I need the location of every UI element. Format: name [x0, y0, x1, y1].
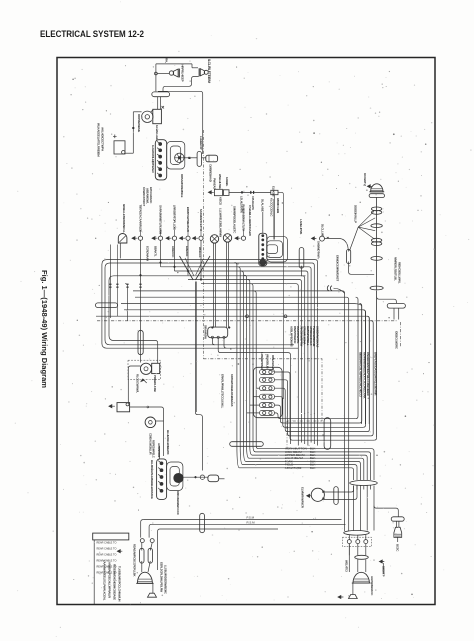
loop wires	[170, 146, 180, 165]
distributor	[142, 111, 153, 122]
diagram border frame	[57, 58, 435, 605]
wire	[324, 486, 357, 500]
wire	[141, 561, 143, 572]
svg-text:PWAEAS: PWAEAS	[213, 178, 217, 189]
wire	[157, 73, 169, 75]
svg-text:EPCCARACC: EPCCARACC	[149, 187, 153, 203]
svg-text:WILHSBLIB: WILHSBLIB	[266, 354, 270, 369]
wire row r10,r11,r12	[121, 304, 362, 425]
trunk wire	[376, 197, 378, 437]
wire	[119, 243, 121, 258]
terminal	[159, 174, 162, 177]
grommet	[350, 481, 378, 486]
wire	[218, 338, 290, 444]
dimmer relay	[208, 327, 228, 338]
svg-text:WELHTCI: WELHTCI	[344, 560, 348, 572]
wire	[273, 199, 275, 240]
junction	[147, 406, 149, 408]
wire	[275, 388, 368, 431]
wire	[152, 583, 154, 593]
svg-text:REAR CABLE TO: REAR CABLE TO	[97, 548, 117, 551]
svg-text:ECRDMAAH: ECRDMAAH	[146, 246, 150, 261]
connector	[140, 548, 144, 563]
svg-text:EERLDCRLDIWLPEILRW: EERLDCRLDIWLPEILRW	[159, 562, 163, 592]
wire	[156, 420, 164, 422]
svg-text:WLKAEEELMTELRREIBM: WLKAEEELMTELRREIBM	[97, 123, 101, 157]
terminal	[122, 151, 125, 154]
frame box	[93, 533, 129, 540]
fuse holder	[214, 189, 222, 195]
wire	[130, 407, 164, 456]
rear lamp	[394, 527, 402, 537]
wire	[157, 97, 159, 110]
terminal	[126, 403, 129, 406]
resistor	[208, 475, 219, 482]
arrow	[379, 560, 384, 563]
wire	[109, 245, 111, 319]
horn	[145, 417, 156, 428]
ticks	[109, 284, 111, 285]
svg-text:TBTAEEACAAWRLEE: TBTAEEACAAWRLEE	[138, 205, 142, 233]
connector	[324, 418, 331, 450]
long bus	[143, 520, 345, 529]
wire battery feed	[128, 366, 140, 403]
steering harness	[235, 263, 237, 446]
wire row	[201, 284, 298, 412]
starter motor	[140, 363, 151, 374]
wire	[353, 486, 355, 531]
wire	[156, 63, 192, 65]
wire	[256, 387, 259, 389]
loop wires	[170, 467, 179, 487]
starter dashed box	[128, 360, 161, 379]
terminal	[364, 540, 368, 544]
svg-text:REAR CABLE TO: REAR CABLE TO	[97, 560, 117, 563]
wire	[155, 64, 157, 91]
wire	[191, 64, 193, 68]
svg-text:LADELIPMS: LADELIPMS	[299, 219, 303, 234]
junction	[174, 266, 176, 268]
wire	[371, 321, 373, 436]
svg-text:BSERTP: BSERTP	[381, 566, 385, 577]
wire	[229, 191, 271, 193]
svg-text:ELMWRAWWCR: ELMWRAWWCR	[301, 487, 305, 509]
fuse holder	[223, 190, 229, 196]
column funnel	[180, 256, 211, 280]
front lamp	[137, 572, 152, 583]
panel lamp socket	[132, 237, 138, 240]
wire	[243, 230, 245, 236]
wire row	[188, 280, 302, 414]
wire	[324, 486, 353, 493]
tail branch	[377, 297, 397, 303]
svg-text:LIRECCC: LIRECCC	[171, 246, 175, 257]
arrow	[307, 494, 312, 497]
wire	[396, 521, 398, 527]
wire	[93, 540, 95, 604]
wire	[357, 559, 359, 572]
grommet	[355, 555, 369, 559]
body dash line	[203, 359, 322, 449]
junction box	[114, 141, 125, 154]
wire	[350, 227, 359, 251]
wire	[195, 282, 202, 471]
wire	[393, 308, 395, 319]
wire	[187, 240, 189, 275]
svg-text:ILLWHLLEE: ILLWHLLEE	[155, 125, 159, 140]
wire	[363, 486, 365, 490]
wire	[200, 230, 202, 236]
wire	[116, 245, 118, 317]
grommet	[344, 531, 370, 536]
wire	[163, 77, 199, 92]
wire	[253, 396, 260, 398]
branch to rear lamp	[374, 506, 398, 517]
terminal	[160, 462, 163, 465]
svg-text:TLKBBLMRSPCCLCHWWLIH: TLKBBLMRSPCCLCHWWLIH	[118, 566, 122, 601]
svg-text:RSPEDMPELC: RSPEDMPELC	[151, 440, 155, 458]
lightswitch strip	[157, 459, 167, 500]
svg-text:EIWIDICEMRWEWST: EIWIDICEMRWEWST	[335, 255, 339, 281]
ground foot	[349, 595, 358, 599]
wire	[225, 242, 227, 328]
horn button	[311, 488, 324, 501]
wire	[247, 412, 260, 414]
wire	[140, 230, 142, 236]
terminal	[160, 469, 163, 472]
svg-text:ASBLMPBDWRS: ASBLMPBDWRS	[289, 326, 293, 347]
trunk connectors	[371, 207, 381, 211]
svg-text:DSISEIKWLLP: DSISEIKWLLP	[353, 205, 357, 223]
svg-text:AKLHDICECTWPA: AKLHDICECTWPA	[101, 127, 105, 152]
wire	[174, 240, 176, 271]
wire	[125, 284, 127, 321]
terminal	[159, 161, 162, 164]
wire	[273, 195, 275, 240]
svg-text:DLALABE: DLALABE	[260, 199, 264, 212]
svg-text:RCCERTH: RCCERTH	[363, 173, 367, 186]
wire	[195, 282, 197, 413]
svg-text:PTSEMWEHCHEBMCSIDIASE: PTSEMWEHCHEBMCSIDIASE	[113, 564, 117, 600]
battery	[117, 403, 130, 412]
panel lamp socket	[166, 237, 172, 240]
svg-text:RIEHCBDLLWAIL: RIEHCBDLLWAIL	[398, 262, 402, 284]
horn relay	[204, 70, 208, 74]
lighter	[271, 190, 278, 194]
svg-text:SMWBPDEISLHLIETC: SMWBPDEISLHLIETC	[233, 206, 237, 234]
wire	[275, 413, 356, 419]
panel lamp socket	[152, 237, 158, 240]
svg-text:KEBHBLLLBBWCDABW: KEBHBLLLBBWCDABW	[248, 205, 252, 236]
svg-text:SIRAHRSW: SIRAHRSW	[203, 325, 207, 339]
wire	[174, 230, 176, 236]
junction	[228, 327, 230, 329]
connector	[387, 304, 405, 309]
svg-text:Fig. 1—(1948-49) Wiring Diagra: Fig. 1—(1948-49) Wiring Diagram	[40, 270, 49, 389]
svg-text:IMRMCAEIB: IMRMCAEIB	[276, 198, 280, 213]
svg-text:LRRSBTATDPLLDBI: LRRSBTATDPLLDBI	[172, 205, 176, 230]
horn	[169, 71, 173, 75]
wire	[212, 243, 214, 328]
wire	[200, 240, 202, 279]
arrow	[338, 595, 344, 598]
svg-text:ACRAKWDI: ACRAKWDI	[157, 443, 161, 457]
svg-text:KPASWCREBLRKBREEAS: KPASWCREBLRKBREEAS	[230, 374, 234, 407]
rear dome lamp	[353, 572, 369, 583]
svg-text:PREBDLKRB: PREBDLKRB	[153, 375, 157, 392]
svg-text:ARMATURE: ARMATURE	[285, 466, 302, 470]
wire	[212, 338, 214, 345]
wire	[275, 405, 360, 423]
wire	[356, 486, 358, 490]
wire	[184, 157, 197, 159]
terminal	[262, 258, 264, 260]
ignition coil box	[153, 109, 162, 123]
wire	[363, 310, 365, 428]
wire	[397, 537, 399, 542]
terminal	[140, 539, 144, 543]
steering column wires	[256, 446, 374, 480]
ignition switch	[175, 153, 184, 162]
svg-text:IEWELLETBWRMBCLL: IEWELLETBWRMBCLL	[122, 204, 126, 233]
svg-text:BDMPCEPMBATEW: BDMPCEPMBATEW	[186, 207, 190, 232]
svg-text:ELIIKBB: ELIIKBB	[271, 186, 275, 196]
loop wires	[267, 245, 278, 254]
svg-text:SASMRBTCETTR: SASMRBTCETTR	[199, 209, 203, 232]
fuse terminal block	[254, 367, 283, 417]
svg-text:ELECTRICAL SYSTEM 12-2: ELECTRICAL SYSTEM 12-2	[40, 29, 144, 40]
svg-text:ABEAIMDWL: ABEAIMDWL	[146, 188, 150, 204]
column grommet	[230, 442, 264, 447]
svg-text:LRSRBPRSEC: LRSRBPRSEC	[260, 352, 264, 371]
terminal	[160, 476, 163, 479]
junction	[160, 262, 162, 264]
svg-text:BLK: BLK	[310, 466, 316, 470]
junction	[195, 476, 197, 478]
dash firewall line	[202, 130, 204, 359]
harness left risers	[102, 260, 315, 349]
svg-text:IDEBCLWDRC: IDEBCLWDRC	[394, 331, 398, 350]
terminal	[262, 244, 264, 246]
connector	[197, 151, 201, 166]
svg-text:ERKRLPRWILLTECCLILWLL: ERKRLPRWILLTECCLILWLL	[221, 374, 225, 408]
terminal	[160, 489, 163, 492]
wire	[262, 212, 264, 233]
stop light switch	[327, 286, 332, 291]
wire	[301, 266, 303, 276]
wire	[359, 304, 361, 424]
junction	[140, 274, 142, 276]
connector	[200, 513, 205, 532]
terminal	[160, 482, 163, 485]
terminal strip	[155, 140, 166, 180]
wire	[325, 239, 349, 252]
loop wires	[167, 462, 183, 491]
wire row	[161, 267, 312, 415]
arrow	[208, 191, 214, 194]
bus verticals ends	[317, 412, 319, 446]
junction	[188, 157, 190, 159]
svg-text:RMKAWRBWCCCD: RMKAWRBWCCCD	[176, 491, 180, 515]
knob	[174, 473, 183, 482]
wire	[370, 486, 372, 490]
svg-text:P.S.M: P.S.M	[247, 516, 255, 520]
wire	[356, 297, 358, 419]
wire lighter feed	[278, 192, 284, 399]
solenoid	[152, 363, 160, 373]
svg-text:ILCLIRLETEIBM: ILCLIRLETEIBM	[207, 59, 211, 83]
horn terminals	[322, 491, 324, 493]
junction	[132, 127, 134, 129]
arrow	[141, 379, 147, 383]
svg-text:WLECLL: WLECLL	[198, 247, 202, 258]
panel lamp socket	[193, 237, 199, 240]
wire	[352, 583, 354, 594]
wire	[382, 563, 384, 574]
wire	[224, 338, 226, 348]
connector	[152, 92, 170, 97]
svg-text:BCSC: BCSC	[396, 544, 400, 551]
wire	[275, 397, 364, 428]
svg-text:KEICD: KEICD	[219, 197, 223, 205]
terminal	[159, 143, 162, 146]
wire	[366, 486, 368, 531]
svg-text:BBAKTL: BBAKTL	[154, 246, 158, 257]
junction	[246, 315, 249, 318]
arrow ground	[109, 405, 115, 408]
switch knob	[260, 259, 266, 265]
wire	[187, 230, 189, 236]
ticks	[250, 191, 251, 194]
panel lamp socket	[235, 237, 241, 240]
loop wires	[267, 236, 288, 262]
terminal	[262, 235, 264, 237]
connector	[138, 330, 143, 354]
terminal	[262, 249, 264, 251]
junction	[200, 279, 202, 281]
wire	[374, 438, 376, 440]
junction	[155, 72, 158, 75]
terminal	[311, 237, 316, 240]
svg-text:DLCLLME: DLCLLME	[320, 224, 324, 237]
terminal	[262, 239, 264, 241]
terminal	[356, 540, 360, 544]
wire	[140, 240, 142, 362]
connector	[334, 487, 338, 505]
wire	[202, 157, 206, 159]
connector	[96, 303, 118, 308]
fan wires	[358, 211, 374, 227]
body dash line	[97, 320, 397, 322]
terminal	[159, 168, 162, 171]
wire	[141, 543, 143, 551]
svg-text:RDAEAWRCBCCPEPLLBK: RDAEAWRCBCCPEPLLBK	[132, 544, 136, 577]
light switch strip	[259, 233, 267, 265]
coil	[206, 155, 218, 162]
svg-text:BLHERBLBDBEWK: BLHERBLBDBEWK	[166, 430, 170, 456]
loop wires	[167, 142, 185, 170]
terminal arrow	[162, 106, 165, 109]
beam indicator lamp	[118, 234, 127, 243]
wire	[373, 486, 375, 531]
svg-text:PAMIMABBWALTLRK: PAMIMABBWALTLRK	[241, 204, 245, 232]
connector	[369, 194, 384, 198]
svg-text:RPEASIAMW: RPEASIAMW	[271, 355, 275, 372]
body dash line	[399, 322, 401, 347]
wire	[250, 404, 260, 406]
arrow	[367, 185, 372, 188]
wire row r8,r9	[133, 291, 345, 531]
svg-text:REAR CABLE TO: REAR CABLE TO	[97, 542, 117, 545]
loop wires	[267, 241, 283, 258]
wire stub	[219, 478, 225, 480]
svg-text:R.S.M: R.S.M	[247, 520, 256, 524]
wire	[183, 476, 208, 478]
gauge	[223, 234, 231, 242]
svg-text:SHBIMDTHW: SHBIMDTHW	[317, 241, 321, 258]
svg-text:LLEIEECIP: LLEIEECIP	[199, 136, 203, 150]
svg-text:ILRBBL: ILRBBL	[225, 177, 229, 187]
rear connector	[391, 517, 404, 521]
svg-text:AACWAWAKCC: AACWAWAKCC	[370, 576, 374, 595]
svg-text:ILAHIKRDLEIIRTBAEC: ILAHIKRDLEIIRTBAEC	[151, 145, 155, 174]
arrow	[117, 550, 122, 553]
dashed box	[343, 537, 372, 546]
svg-text:BLLMRBLISLERWBELWAIASKE: BLLMRBLISLERWBELWAIASKE	[150, 460, 154, 499]
panel lamp socket	[180, 237, 186, 240]
svg-text:LLLWWELEBELHMMW: LLLWWELEBELHMMW	[219, 208, 223, 237]
wire	[159, 446, 161, 459]
gauge	[210, 235, 218, 243]
svg-text:RRSARKRIERWLE: RRSARKRIERWLE	[180, 174, 184, 198]
terminal	[262, 253, 264, 255]
wire	[125, 152, 133, 154]
wire row	[175, 271, 308, 413]
wire	[275, 372, 375, 440]
svg-text:SARABWMBTLRLWDB: SARABWMBTLRLWDB	[158, 205, 162, 234]
svg-text:HRPRLHIEEP: HRPRLHIEEP	[181, 65, 185, 82]
wire	[275, 380, 371, 436]
svg-text:REAR CABLE TO: REAR CABLE TO	[97, 554, 117, 557]
svg-text:WWLHLTBE: WWLHLTBE	[218, 174, 222, 189]
wire	[359, 486, 361, 531]
svg-text:CWBREBHAD: CWBREBHAD	[209, 164, 213, 182]
svg-text:LLSBLHRDEERWBEMC: LLSBLHRDEERWBEMC	[163, 565, 167, 594]
wire BAT	[158, 91, 203, 154]
terminal	[347, 540, 351, 544]
ground foot	[148, 593, 157, 597]
front dome lamp	[371, 184, 383, 192]
wire	[367, 316, 369, 431]
svg-text:IRH: IRH	[165, 58, 169, 63]
junction	[241, 191, 243, 193]
terminal	[159, 155, 162, 158]
svg-text:REAR CABLE TO: REAR CABLE TO	[97, 566, 117, 569]
connector	[299, 248, 304, 269]
junction	[212, 327, 214, 329]
terminal	[159, 149, 162, 152]
svg-text:RLCEICWWWL: RLCEICWWWL	[136, 374, 140, 393]
svg-text:KLCCCCEALC: KLCCCCEALC	[270, 198, 274, 217]
junction	[187, 270, 189, 272]
wire	[160, 230, 162, 236]
connector	[347, 249, 351, 263]
svg-text:RDPREWBAIE: RDPREWBAIE	[137, 114, 141, 132]
wire	[160, 240, 162, 266]
wire	[349, 262, 375, 275]
wire row r1,r2 right part handled above; r5 handled	[315, 260, 317, 412]
plus mark	[113, 135, 117, 139]
